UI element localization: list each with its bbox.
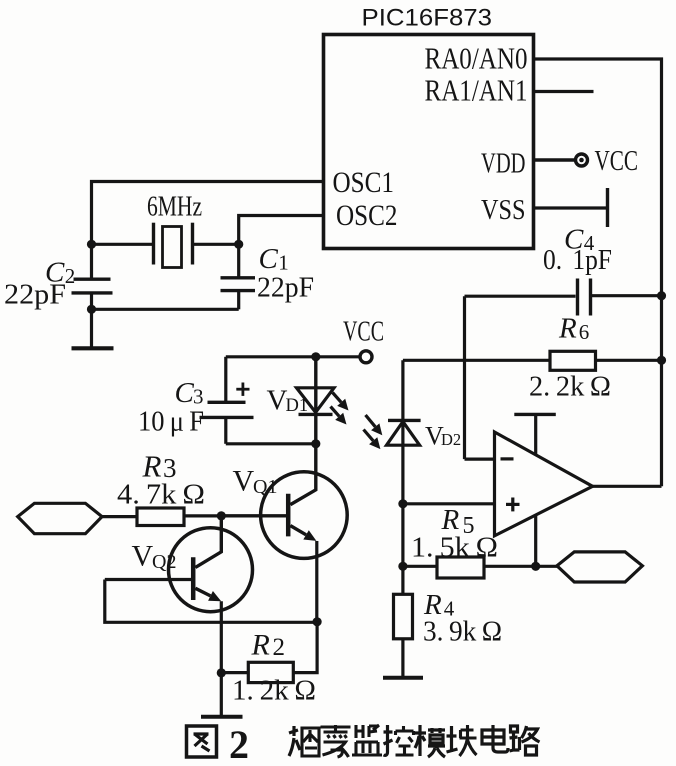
- svg-text:2: 2: [273, 634, 286, 661]
- svg-text:6MHz: 6MHz: [147, 192, 202, 223]
- svg-text:V: V: [267, 385, 288, 417]
- svg-text:R: R: [558, 313, 577, 345]
- svg-text:V: V: [233, 465, 255, 498]
- svg-text:2: 2: [229, 722, 249, 766]
- svg-text:V: V: [132, 540, 154, 573]
- svg-text:3: 3: [193, 385, 204, 409]
- svg-text:1. 5k Ω: 1. 5k Ω: [411, 533, 498, 564]
- svg-text:Q2: Q2: [152, 551, 176, 573]
- svg-text:0. 1pF: 0. 1pF: [543, 245, 612, 276]
- svg-text:1: 1: [278, 251, 289, 275]
- svg-text:R: R: [251, 629, 270, 662]
- svg-text:VCC: VCC: [595, 145, 639, 177]
- svg-text:OSC1: OSC1: [333, 166, 395, 199]
- svg-text:VSS: VSS: [481, 195, 526, 226]
- svg-text:22pF: 22pF: [257, 273, 314, 304]
- svg-text:VDD: VDD: [481, 149, 526, 180]
- svg-text:4. 7k Ω: 4. 7k Ω: [117, 480, 205, 511]
- svg-text:22pF: 22pF: [4, 280, 66, 311]
- svg-text:OSC2: OSC2: [336, 199, 398, 232]
- svg-text:PIC16F873: PIC16F873: [362, 5, 493, 32]
- svg-text:VCC: VCC: [343, 317, 384, 348]
- svg-text:6: 6: [579, 320, 590, 344]
- svg-text:C: C: [259, 243, 279, 275]
- svg-text:RA1/AN1: RA1/AN1: [425, 74, 528, 108]
- svg-text:3. 9k Ω: 3. 9k Ω: [423, 617, 502, 648]
- svg-text:10 μ F: 10 μ F: [138, 407, 204, 438]
- svg-text:3: 3: [163, 453, 177, 483]
- svg-text:R: R: [441, 504, 460, 536]
- svg-text:2. 2k Ω: 2. 2k Ω: [529, 372, 611, 403]
- svg-text:1. 2k Ω: 1. 2k Ω: [232, 676, 316, 707]
- svg-text:Q1: Q1: [253, 476, 277, 498]
- svg-text:R: R: [142, 449, 162, 484]
- svg-text:2: 2: [65, 264, 76, 288]
- svg-text:D1: D1: [286, 396, 309, 416]
- svg-text:RA0/AN0: RA0/AN0: [425, 42, 528, 76]
- svg-text:D2: D2: [441, 430, 461, 449]
- svg-text:C: C: [175, 377, 195, 409]
